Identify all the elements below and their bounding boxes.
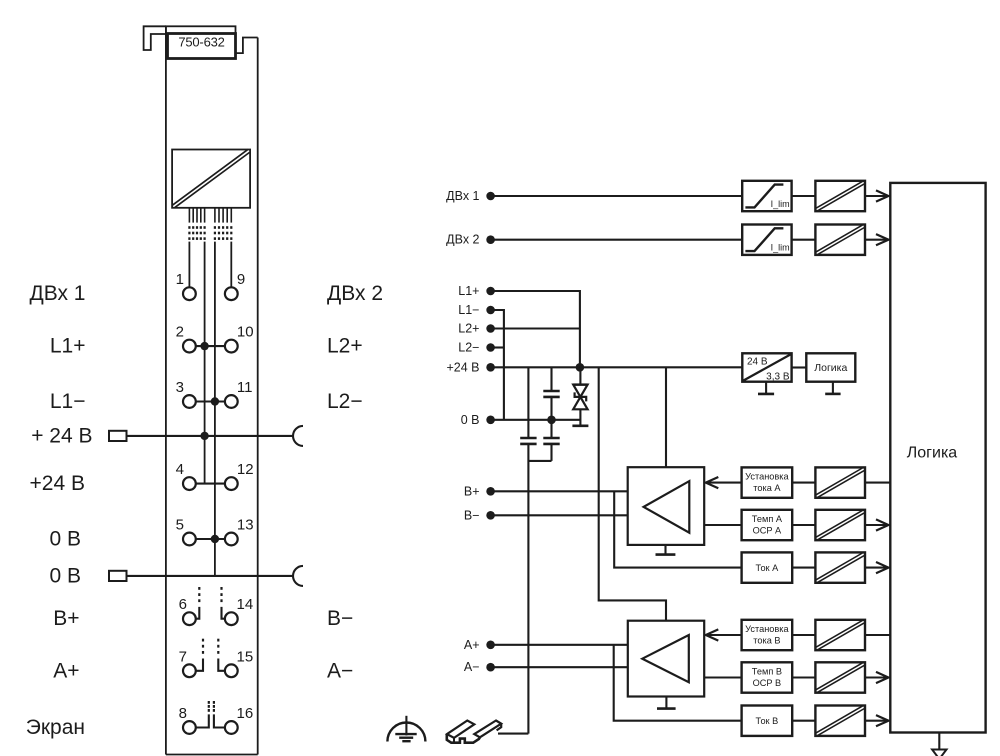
ground of amplifier A xyxy=(664,545,666,555)
svg-text:L1+: L1+ xyxy=(50,335,86,358)
wire L1- xyxy=(491,310,504,420)
logic block xyxy=(890,183,985,733)
chassis link wire xyxy=(528,460,551,462)
terminal 4 xyxy=(183,477,196,490)
wire B+ xyxy=(491,490,628,492)
svg-text:B−: B− xyxy=(464,508,480,522)
arrow into amplifier xyxy=(707,634,742,636)
svg-text:2: 2 xyxy=(176,324,184,341)
svg-text:1: 1 xyxy=(176,271,184,288)
isolation block xyxy=(815,662,865,692)
isolation block xyxy=(815,181,865,211)
signal box ustB xyxy=(742,620,793,650)
isolation block xyxy=(815,225,865,255)
module top cap xyxy=(166,26,236,33)
signal box tokB xyxy=(742,706,793,736)
feed wire to amplifier A (upper) xyxy=(665,367,667,467)
svg-text:L2−: L2− xyxy=(458,341,479,355)
wire A+ xyxy=(491,644,628,646)
junction 0V xyxy=(547,416,556,425)
junction xyxy=(211,535,219,543)
bus wire 2 (0V) xyxy=(214,242,216,576)
slew limiter I_lim 1 xyxy=(742,181,791,211)
left mounting hook xyxy=(144,26,166,50)
terminal 6 xyxy=(183,612,196,625)
DIN rail symbol xyxy=(447,721,474,738)
svg-text:Ток А: Ток А xyxy=(756,563,780,573)
svg-text:B+: B+ xyxy=(464,484,480,498)
svg-text:A−: A− xyxy=(327,659,353,682)
ribbon wires from isolation block xyxy=(188,208,190,223)
TVS suppressor D1 xyxy=(579,367,581,384)
svg-text:3,3 В: 3,3 В xyxy=(766,372,790,383)
svg-text:16: 16 xyxy=(237,705,254,722)
svg-text:тока В: тока В xyxy=(753,635,780,645)
svg-text:0 В: 0 В xyxy=(49,528,81,551)
svg-text:тока А: тока А xyxy=(753,483,781,493)
bus wire 1 (+24V) xyxy=(204,242,206,484)
wire with arrow into logic xyxy=(865,676,887,678)
svg-text:L2+: L2+ xyxy=(327,335,363,358)
junction +24V xyxy=(576,363,585,372)
svg-text:14: 14 xyxy=(237,596,254,613)
signal ground of logic block xyxy=(938,733,940,750)
terminal 5 xyxy=(183,533,196,546)
svg-text:L1+: L1+ xyxy=(458,284,479,298)
wire to isolation xyxy=(792,482,815,484)
plain wire from logic xyxy=(865,482,890,484)
svg-text:L2+: L2+ xyxy=(458,322,479,336)
wire with arrow into logic xyxy=(865,720,887,722)
svg-text:5: 5 xyxy=(176,517,184,534)
ground of small logic box xyxy=(832,382,834,394)
ribbon dotted continuation xyxy=(188,226,190,229)
svg-text:+24 В: +24 В xyxy=(30,472,85,495)
0V female contact arc xyxy=(293,566,303,586)
terminal 3 xyxy=(183,395,196,408)
contact stub right row 14 xyxy=(222,607,225,619)
terminal 11 xyxy=(225,395,238,408)
svg-text:B+: B+ xyxy=(53,607,79,630)
svg-text:A−: A− xyxy=(464,660,480,674)
wire from amplifier B xyxy=(704,676,741,678)
svg-text:I_lim: I_lim xyxy=(771,243,790,253)
terminal 15 xyxy=(225,664,238,677)
svg-text:13: 13 xyxy=(237,517,254,534)
capacitor C2 plates xyxy=(543,390,559,393)
signal box tempB xyxy=(742,662,793,692)
terminal 1 xyxy=(183,287,196,300)
wire to terminal 1 xyxy=(188,242,190,287)
+24V feed wire xyxy=(127,435,294,437)
svg-text:ДВх 1: ДВх 1 xyxy=(29,282,85,305)
module body outline xyxy=(165,26,167,754)
+24V female contact arc xyxy=(293,426,303,446)
junction xyxy=(211,397,219,405)
ground of DC converter xyxy=(765,382,767,394)
wire L2+ xyxy=(491,327,580,329)
wire B- xyxy=(491,514,628,516)
isolation block xyxy=(815,706,865,736)
svg-text:7: 7 xyxy=(179,648,187,665)
svg-text:12: 12 xyxy=(237,461,254,478)
svg-text:Установка: Установка xyxy=(745,471,789,481)
0V feed plug xyxy=(109,571,127,581)
label box 750-632 xyxy=(168,34,236,59)
isolation block U1 xyxy=(172,150,250,208)
svg-text:10: 10 xyxy=(237,324,254,341)
svg-text:Логика: Логика xyxy=(907,445,958,462)
isolation block xyxy=(815,467,865,497)
svg-text:Ток В: Ток В xyxy=(756,716,779,726)
wire 0V rail xyxy=(491,419,581,421)
+24V feed plug xyxy=(109,431,127,441)
arrow into amplifier xyxy=(707,482,742,484)
terminal 7 xyxy=(183,664,196,677)
capacitor C1 plates xyxy=(520,437,536,440)
svg-text:ДВх 2: ДВх 2 xyxy=(446,233,479,247)
svg-text:8: 8 xyxy=(179,705,187,722)
wire to isolation xyxy=(792,676,815,678)
svg-text:0 В: 0 В xyxy=(461,413,480,427)
svg-text:Установка: Установка xyxy=(745,624,789,634)
contact stub right row 15 xyxy=(218,659,224,671)
svg-text:Темп В: Темп В xyxy=(752,666,782,676)
wire from amplifier A xyxy=(704,524,741,526)
terminal 2 xyxy=(183,340,196,353)
ground of amplifier B xyxy=(665,697,667,709)
svg-text:9: 9 xyxy=(237,271,245,288)
terminal 10 xyxy=(225,340,238,353)
svg-text:I_lim: I_lim xyxy=(771,199,790,209)
wire to isolation row y=240 xyxy=(792,239,816,241)
wire to isolation xyxy=(792,524,815,526)
wire DVh1 to I_lim xyxy=(491,195,743,197)
wire DVh2 to I_lim xyxy=(491,239,743,241)
current sense tap B xyxy=(614,645,743,721)
current sense tap A xyxy=(614,491,741,567)
wire with arrow into logic xyxy=(865,567,887,569)
signal box tempA xyxy=(742,510,793,540)
capacitor C3 plates xyxy=(543,437,559,440)
terminal 16 xyxy=(225,721,238,734)
svg-text:0 В: 0 В xyxy=(49,564,81,587)
svg-text:+ 24 В: + 24 В xyxy=(31,424,92,447)
svg-text:Экран: Экран xyxy=(26,716,85,739)
right mounting hook xyxy=(236,38,258,54)
svg-text:+24 В: +24 В xyxy=(446,360,479,374)
svg-text:A+: A+ xyxy=(464,638,480,652)
wire to isolation xyxy=(792,634,815,636)
wire L1+ xyxy=(491,291,580,367)
jumper wire row 5-13 xyxy=(196,538,225,540)
svg-text:15: 15 xyxy=(237,648,254,665)
wire with arrow into logic xyxy=(865,195,887,197)
svg-text:Темп А: Темп А xyxy=(752,514,783,524)
svg-text:ДВх 1: ДВх 1 xyxy=(446,189,479,203)
signal box tokA xyxy=(742,552,793,582)
contact stub left row 8 xyxy=(196,714,209,727)
capacitor C2 leads xyxy=(550,367,552,391)
svg-text:B−: B− xyxy=(327,607,353,630)
wire to terminal 9 xyxy=(230,242,232,287)
0V feed wire xyxy=(127,575,294,577)
small logic box xyxy=(806,353,855,381)
terminal 9 xyxy=(225,287,238,300)
contact stub left row 6 xyxy=(196,607,199,619)
slew limiter I_lim 2 xyxy=(742,225,791,255)
capacitor C1 leads xyxy=(527,367,529,438)
svg-text:ДВх 2: ДВх 2 xyxy=(327,282,383,305)
TVS end bar xyxy=(572,424,588,427)
svg-text:750-632: 750-632 xyxy=(178,35,224,50)
wire DIN rail to chassis xyxy=(498,733,528,735)
signal box ustA xyxy=(742,467,793,497)
svg-text:3: 3 xyxy=(176,379,184,396)
jumper wire row 2-10 xyxy=(196,345,225,347)
terminal 8 xyxy=(183,721,196,734)
svg-text:L2−: L2− xyxy=(327,390,363,413)
svg-text:L1−: L1− xyxy=(50,390,86,413)
wire to isolation xyxy=(792,720,815,722)
svg-text:6: 6 xyxy=(179,596,187,613)
plain wire from logic xyxy=(865,634,890,636)
wire with arrow into logic xyxy=(865,239,887,241)
capacitor C3 leads xyxy=(550,420,552,438)
wire with arrow into logic xyxy=(865,524,887,526)
feed wire to amplifier B (lower) xyxy=(599,367,666,620)
svg-text:A+: A+ xyxy=(53,659,79,682)
terminal 14 xyxy=(225,612,238,625)
isolation block xyxy=(815,552,865,582)
contact stub left row 7 xyxy=(196,659,203,671)
svg-text:ОСР В: ОСР В xyxy=(753,678,782,688)
wire L2- xyxy=(491,346,504,348)
terminal 13 xyxy=(225,533,238,546)
svg-text:4: 4 xyxy=(176,461,184,478)
DC converter 24V/3.3V xyxy=(742,353,791,381)
isolation block xyxy=(815,510,865,540)
wire to isolation row y=196 xyxy=(792,195,816,197)
amplifier B (lower) xyxy=(628,621,704,697)
svg-text:ОСР А: ОСР А xyxy=(753,525,782,535)
jumper wire row 3-11 xyxy=(196,400,225,402)
junction xyxy=(200,342,208,350)
svg-text:Логика: Логика xyxy=(814,362,847,374)
svg-text:11: 11 xyxy=(237,379,253,396)
wire DC converter to logic block xyxy=(792,366,807,368)
amplifier A (upper) xyxy=(628,467,705,545)
wire to isolation xyxy=(792,567,815,569)
contact stub right row 16 xyxy=(214,714,225,727)
svg-text:L1−: L1− xyxy=(458,303,479,317)
isolation block xyxy=(815,620,865,650)
wire A- xyxy=(491,666,628,668)
wire +24V rail xyxy=(491,366,743,368)
jumper wire row 4-12 xyxy=(196,483,225,485)
junction on bus 1 xyxy=(200,432,208,440)
svg-text:24 В: 24 В xyxy=(747,357,768,368)
functional earth symbol xyxy=(405,716,407,736)
terminal 12 xyxy=(225,477,238,490)
